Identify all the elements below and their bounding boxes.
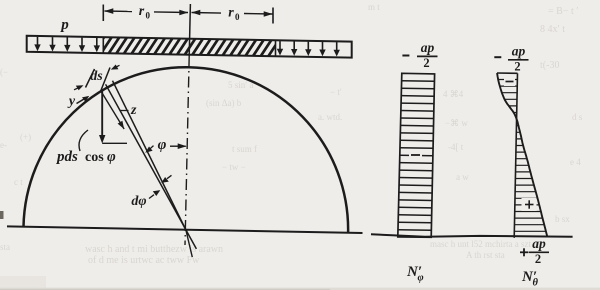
svg-text:2: 2 (423, 56, 429, 70)
svg-text:a w: a w (456, 172, 469, 182)
svg-text:t sum f: t sum f (232, 144, 257, 154)
svg-text:-4[ t: -4[ t (448, 142, 464, 152)
svg-text:θ: θ (533, 278, 539, 289)
svg-text:ap: ap (512, 44, 526, 59)
svg-text:A th rst sta: A th rst sta (466, 250, 505, 260)
svg-text:4 ⌘4: 4 ⌘4 (443, 89, 464, 99)
svg-text:a. wtd.: a. wtd. (318, 112, 342, 122)
svg-text:8 4x′ t: 8 4x′ t (540, 24, 565, 35)
svg-text:2: 2 (514, 59, 520, 73)
svg-text:(sin Δa) b: (sin Δa) b (206, 98, 242, 108)
svg-text:e-: e- (0, 140, 7, 150)
svg-text:− tw −: − tw − (222, 162, 246, 172)
svg-text:0: 0 (235, 12, 240, 22)
svg-text:c t: c t (14, 177, 23, 187)
svg-text:r: r (228, 6, 234, 21)
svg-text:2: 2 (535, 252, 541, 266)
svg-text:φ: φ (107, 149, 116, 165)
svg-text:masc h unt l52 mchirta a szt r: masc h unt l52 mchirta a szt ra (430, 239, 540, 249)
svg-text:ap: ap (421, 40, 435, 55)
svg-text:wasc h and t mi butthezw is ar: wasc h and t mi butthezw is arawn (85, 244, 223, 255)
svg-text:= B− t ′: = B− t ′ (548, 6, 578, 17)
svg-text:z: z (130, 103, 137, 118)
svg-text:of d me is urtwc ac tww Fw: of d me is urtwc ac tww Fw (88, 255, 200, 266)
svg-text:b sx: b sx (555, 214, 570, 224)
svg-text:ap: ap (532, 236, 546, 251)
svg-text:m t: m t (368, 2, 380, 12)
svg-text:φ: φ (158, 137, 167, 153)
svg-text:sta: sta (0, 242, 10, 252)
svg-text:t(-30: t(-30 (540, 60, 559, 71)
svg-text:−⌘ w: −⌘ w (445, 118, 468, 128)
svg-text:r: r (139, 4, 145, 19)
svg-text:p: p (59, 17, 69, 33)
svg-text:y: y (67, 94, 76, 109)
svg-text:dφ: dφ (131, 194, 146, 209)
svg-text:pds: pds (55, 149, 78, 165)
svg-text:− t′: − t′ (330, 87, 342, 97)
svg-text:0: 0 (146, 11, 151, 21)
svg-text:ds: ds (90, 69, 103, 84)
svg-text:cos: cos (85, 150, 104, 165)
svg-text:d s: d s (572, 112, 583, 122)
svg-text:(−: (− (0, 67, 8, 77)
svg-text:e 4: e 4 (570, 157, 581, 167)
svg-text:(+): (+) (20, 132, 31, 142)
svg-text:φ: φ (418, 273, 424, 284)
